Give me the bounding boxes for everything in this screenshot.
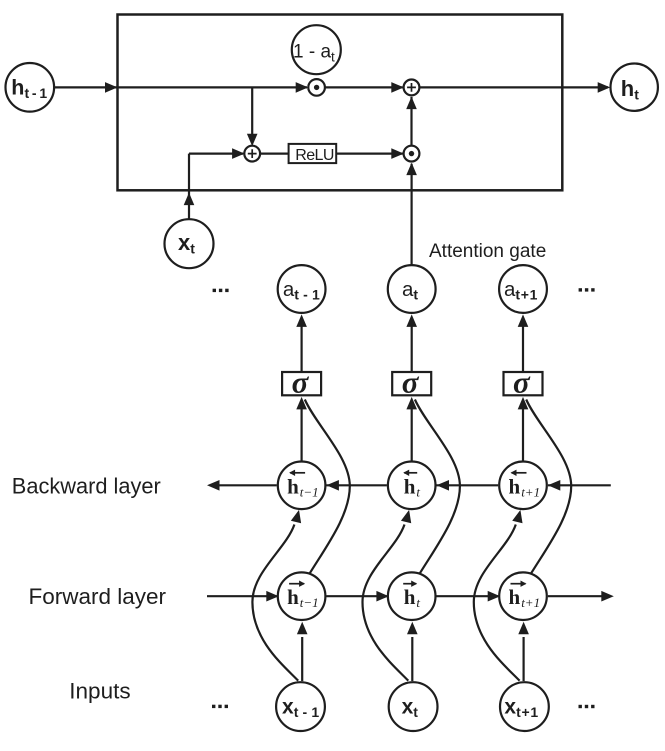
wire backward t+1 up to sigma	[522, 408, 524, 462]
node backward h_t - 1	[278, 462, 326, 510]
wire sigma t+1 up to a node	[522, 326, 524, 373]
arrowhead into h_fwd_{t+1}	[488, 591, 501, 602]
plus node	[244, 146, 260, 162]
node a_t+1	[499, 265, 547, 313]
arrowhead into h_back_t	[437, 480, 450, 491]
arrowhead at box entry	[105, 82, 118, 93]
arrowhead backward output left	[207, 480, 220, 491]
sigma box col t - 1	[282, 372, 321, 395]
svg-text:σ: σ	[292, 364, 310, 399]
backward wire from right edge	[548, 484, 611, 486]
node a_t	[388, 265, 436, 313]
svg-text:ReLU: ReLU	[295, 147, 334, 164]
backward wire t to t-1	[326, 484, 387, 486]
arrowhead into h_t	[598, 82, 611, 93]
backward wire t+1 to t	[437, 484, 499, 486]
wire oplus to h_t	[419, 86, 608, 88]
big cell box	[118, 15, 563, 191]
node input x_t+1	[500, 682, 549, 731]
curve forward node t+1 to sigma	[526, 400, 571, 574]
arrowhead into odot1	[296, 82, 309, 93]
arrowhead into h_back_{t-1}	[326, 480, 339, 491]
svg-text:σ: σ	[402, 364, 420, 399]
curve forward node t to sigma	[415, 400, 460, 574]
wire corner to plus node	[189, 153, 243, 155]
arrowhead at box bottom entry	[184, 193, 195, 206]
arrowhead into h_back_{t+1}	[548, 480, 561, 491]
arrowhead into h_fwd_{t-1}	[266, 591, 279, 602]
forward wire t-1 to t	[326, 595, 387, 597]
node input x_t	[389, 682, 438, 731]
curve x_t - 1 to backward node	[252, 525, 298, 681]
wire plus to ReLU	[260, 153, 288, 155]
node input x_t - 1	[276, 682, 325, 731]
svg-text:Inputs: Inputs	[69, 679, 130, 704]
node a_t - 1	[278, 265, 326, 313]
wire from x_t up into box	[188, 154, 190, 220]
wire x_t - 1 up to forward node	[301, 637, 303, 681]
ellipsis left of x_{t-1}	[212, 705, 215, 708]
wire sigma t - 1 up to a node	[301, 326, 303, 373]
svg-text:1 - at: 1 - at	[293, 41, 335, 64]
arrowhead forward output right	[601, 591, 614, 602]
node forward h_t+1	[499, 572, 547, 620]
node backward h_t+1	[499, 462, 547, 510]
wire ReLU to odot2	[336, 153, 402, 155]
node x_t (cell input)	[165, 219, 214, 268]
svg-text:Attention gate: Attention gate	[429, 241, 546, 262]
node forward h_t - 1	[278, 572, 326, 620]
curve forward node t - 1 to sigma	[305, 400, 350, 574]
arrowhead into oplus bottom	[406, 97, 417, 110]
odot1 (elementwise product)	[308, 79, 325, 96]
svg-text:Forward layer: Forward layer	[29, 584, 167, 609]
wire branch down to plus node	[251, 87, 253, 134]
forward wire t to t+1	[437, 595, 499, 597]
oplus (sum node)	[404, 80, 420, 96]
arrowhead into odot2	[391, 148, 404, 159]
wire backward t - 1 up to sigma	[301, 408, 303, 462]
wire a_t up to odot2	[411, 164, 413, 265]
wire x_t+1 up to forward node	[522, 637, 524, 681]
svg-text:Backward layer: Backward layer	[12, 474, 161, 499]
arrowhead into h_fwd_t	[376, 591, 389, 602]
forward wire out right	[548, 595, 602, 597]
arrowhead into plus left	[232, 148, 245, 159]
node 1-a_t	[292, 25, 341, 74]
curve x_t+1 to backward node	[474, 525, 520, 681]
arrowhead into odot2 bottom	[406, 163, 417, 176]
node forward h_t	[388, 572, 436, 620]
wire sigma t up to a node	[411, 326, 413, 373]
odot2 (attention product)	[404, 146, 420, 162]
ellipsis right of a_{t+1}	[579, 288, 582, 291]
node backward h_t	[388, 462, 436, 510]
wire h_{t-1} to odot1	[54, 86, 308, 88]
ellipsis right of x_{t+1}	[579, 705, 582, 708]
node h_t	[611, 63, 658, 110]
arrowhead into oplus	[391, 82, 404, 93]
backward wire out left	[219, 484, 277, 486]
wire x_t up to forward node	[411, 637, 413, 681]
wire backward t up to sigma	[411, 408, 413, 462]
node h_{t-1}	[6, 63, 55, 112]
wire odot1 to oplus	[325, 86, 403, 88]
ellipsis left of a_{t-1}	[213, 289, 216, 292]
curve x_t to backward node	[363, 525, 409, 681]
arrowhead into plus top	[247, 134, 258, 147]
ReLU box	[289, 144, 337, 163]
svg-text:σ: σ	[513, 364, 531, 399]
sigma box col t	[392, 372, 431, 395]
wire odot2 up to oplus	[410, 97, 412, 146]
forward wire from left edge	[207, 595, 277, 597]
sigma box col t+1	[504, 372, 543, 395]
